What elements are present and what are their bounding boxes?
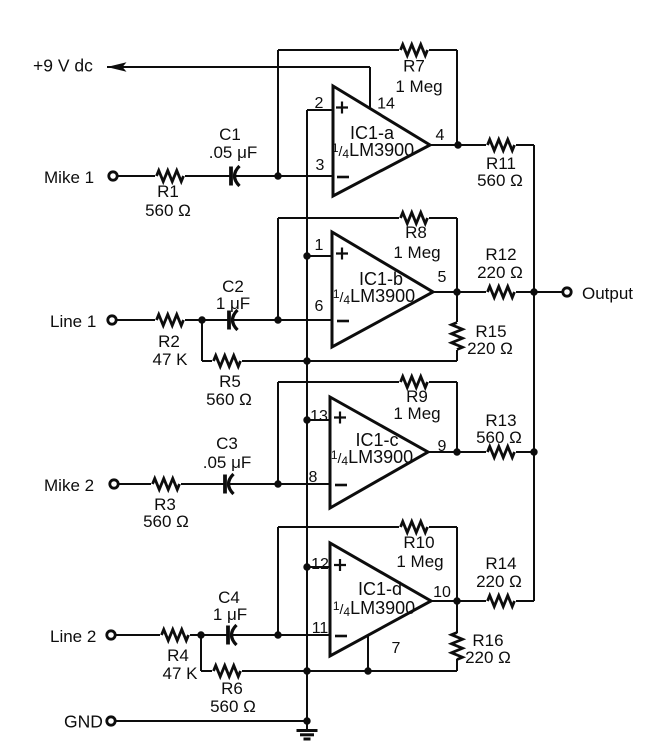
resistor R1	[157, 171, 184, 182]
wire: R8 feedback left leg	[277, 218, 279, 320]
wire: R13 to output bus	[516, 451, 534, 453]
svg-text:5: 5	[438, 269, 447, 286]
wire: R12 to output bus	[516, 291, 534, 293]
wire: pin 2 stub to ground bus	[307, 109, 333, 111]
wire: R7 feedback right leg	[456, 50, 458, 145]
resistor R8	[401, 213, 428, 224]
svg-text:Mike 1: Mike 1	[44, 168, 94, 187]
node: pin 12 / ground bus junction	[303, 563, 310, 570]
node: IC1-a output	[454, 141, 461, 148]
svg-text:560 Ω: 560 Ω	[477, 171, 523, 190]
svg-text:10: 10	[433, 584, 451, 601]
resistor R4	[162, 630, 189, 641]
svg-text:560 Ω: 560 Ω	[476, 428, 522, 447]
svg-text:1 μF: 1 μF	[213, 605, 247, 624]
svg-text:R4: R4	[167, 646, 189, 665]
wire: Mike 1 input line	[117, 175, 155, 177]
node: IC1-b output	[453, 288, 460, 295]
wire: R11 to output bus	[516, 144, 534, 146]
svg-text:R14: R14	[485, 554, 516, 573]
node: bottom line / ground bus junction (d)	[303, 667, 310, 674]
node: bottom line / ground bus junction (b)	[303, 357, 310, 364]
wire: R14 to output bus	[516, 600, 534, 602]
resistor R11	[488, 140, 515, 151]
wire: R10 feedback left leg	[277, 527, 279, 635]
svg-text:R8: R8	[405, 223, 427, 242]
svg-text:R1: R1	[157, 182, 179, 201]
svg-text:1 Meg: 1 Meg	[393, 404, 440, 423]
terminal Line 2	[107, 631, 115, 639]
node: pin 1 / ground bus junction	[303, 252, 310, 259]
svg-text:13: 13	[310, 408, 328, 425]
svg-text:1: 1	[315, 237, 324, 254]
resistor R15	[456, 292, 458, 322]
svg-text:Output: Output	[582, 284, 633, 303]
svg-text:R2: R2	[158, 332, 180, 351]
resistor R3	[153, 479, 180, 490]
svg-text:R5: R5	[219, 372, 241, 391]
resistor R9	[401, 377, 428, 388]
svg-text:C3: C3	[216, 434, 238, 453]
wire: R10 feedback right leg	[456, 527, 458, 601]
wire: R8 feedback top	[278, 217, 399, 219]
node: IC1-d inverting input junction	[274, 631, 281, 638]
svg-text:Mike 2: Mike 2	[44, 476, 94, 495]
svg-text:1 Meg: 1 Meg	[395, 77, 442, 96]
capacitor C4	[226, 626, 230, 645]
resistor R13	[488, 447, 515, 458]
node: IC1-d output	[453, 597, 460, 604]
svg-text:14: 14	[377, 96, 395, 113]
svg-text:1 Meg: 1 Meg	[393, 243, 440, 262]
wire: output stub	[534, 291, 562, 293]
wire: R10 feedback top	[278, 526, 399, 528]
terminal Mike 1	[109, 172, 117, 180]
svg-text:220 Ω: 220 Ω	[467, 339, 513, 358]
wire: Line 1 input line	[116, 319, 155, 321]
node: ground bus / GND junction	[303, 717, 310, 724]
wire: ground bus vertical	[306, 110, 308, 721]
node: IC1-a inverting input junction	[274, 172, 281, 179]
resistor R5	[214, 356, 241, 367]
op-amp IC1-c	[330, 397, 428, 508]
node: output bus junction row b	[530, 288, 537, 295]
wire: R9 feedback right leg	[456, 382, 458, 452]
op-amp IC1-b	[332, 232, 433, 347]
svg-text:R12: R12	[485, 245, 516, 264]
wire: GND input line	[115, 720, 307, 722]
svg-text:560 Ω: 560 Ω	[145, 201, 191, 220]
svg-text:220 Ω: 220 Ω	[465, 648, 511, 667]
svg-text:R7: R7	[403, 57, 425, 76]
svg-text:220 Ω: 220 Ω	[477, 263, 523, 282]
resistor R12	[488, 287, 515, 298]
wire: R7 feedback left leg	[277, 50, 279, 176]
capacitor C2	[227, 311, 231, 330]
svg-text:560 Ω: 560 Ω	[210, 697, 256, 716]
wire: Mike 2 input line	[118, 483, 151, 485]
resistor R6	[214, 666, 241, 677]
node: output bus junction row c	[530, 448, 537, 455]
resistor R2	[157, 315, 184, 326]
node: R4 / C4 / R6 junction	[197, 631, 204, 638]
svg-text:+9 V dc: +9 V dc	[33, 56, 93, 76]
wire: IC1-a output to bus	[430, 144, 486, 146]
node: IC1-c output	[453, 448, 460, 455]
capacitor C3	[223, 475, 227, 494]
terminal Line 1	[108, 316, 116, 324]
node: pin 7 / bottom line junction	[364, 667, 371, 674]
terminal Output	[563, 288, 571, 296]
svg-text:3: 3	[316, 157, 325, 174]
svg-text:560 Ω: 560 Ω	[206, 390, 252, 409]
resistor R14	[488, 596, 515, 607]
svg-text:Line 2: Line 2	[50, 627, 96, 646]
svg-text:1 μF: 1 μF	[216, 294, 250, 313]
wire: R5 / R15 bottom line	[202, 360, 212, 362]
wire: +9V supply rail with arrow	[107, 66, 370, 68]
capacitor C1	[229, 167, 233, 186]
svg-text:220 Ω: 220 Ω	[476, 572, 522, 591]
wire: R6 branch drop	[200, 635, 202, 671]
svg-text:4: 4	[436, 127, 445, 144]
wire: Line 2 input line	[115, 634, 160, 636]
wire: R8 feedback right leg	[456, 218, 458, 292]
wire: R6 / R16 bottom line	[201, 670, 212, 672]
node: IC1-c inverting input junction	[274, 480, 281, 487]
svg-text:560 Ω: 560 Ω	[143, 512, 189, 531]
wire: R5 branch drop	[201, 320, 203, 361]
svg-text:.05 μF: .05 μF	[209, 143, 258, 162]
wire: IC1-d output	[431, 600, 486, 602]
svg-text:R10: R10	[403, 533, 434, 552]
wire: R9 feedback left leg	[277, 382, 279, 484]
resistor R16	[456, 601, 458, 633]
svg-text:47 K: 47 K	[163, 664, 199, 683]
svg-text:12: 12	[311, 556, 329, 573]
svg-text:6: 6	[315, 298, 324, 315]
svg-text:C1: C1	[219, 125, 241, 144]
svg-text:47 K: 47 K	[153, 350, 189, 369]
ground	[297, 721, 318, 739]
node: IC1-b inverting input junction	[274, 316, 281, 323]
svg-text:1 Meg: 1 Meg	[396, 552, 443, 571]
wire: IC1-b output	[433, 291, 486, 293]
wire: pin 1 stub to ground bus	[307, 255, 332, 257]
resistor R7	[401, 45, 428, 56]
svg-text:IC1-d: IC1-d	[358, 579, 402, 599]
svg-text:7: 7	[392, 640, 401, 657]
terminal Mike 2	[110, 480, 118, 488]
svg-text:GND: GND	[64, 712, 103, 732]
svg-text:Line 1: Line 1	[50, 312, 96, 331]
svg-text:.05 μF: .05 μF	[203, 453, 252, 472]
op-amp IC1-a	[333, 86, 430, 196]
svg-text:R6: R6	[221, 679, 243, 698]
wire: output bus vertical	[533, 145, 535, 601]
wire: pin 12 stub to ground bus	[307, 566, 330, 568]
wire: pin 14 supply drop	[369, 67, 371, 109]
node: R2 / C2 / R5 junction	[198, 316, 205, 323]
wire: R7 feedback top	[278, 49, 399, 51]
wire: pin 7 stub	[367, 635, 369, 671]
terminal GND	[107, 717, 115, 725]
op-amp IC1-d	[330, 543, 431, 656]
wire: R9 feedback top	[278, 381, 399, 383]
wire: IC1-c output	[428, 451, 486, 453]
node: pin 13 / ground bus junction	[303, 416, 310, 423]
resistor R10	[401, 522, 428, 533]
wire: pin 13 stub to ground bus	[307, 419, 330, 421]
